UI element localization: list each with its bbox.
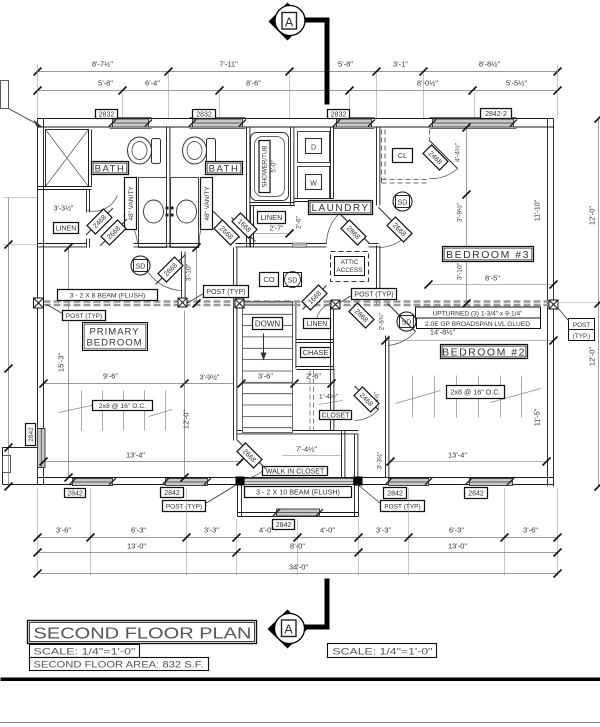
dim 7-4half walkin [283,455,341,457]
svg-text:6'-3": 6'-3" [131,526,146,535]
svg-text:CHASE: CHASE [303,348,329,357]
window 2842 left wall [38,429,46,468]
window 2842 bottom #4 (bedroom2) [470,479,513,486]
window between posts (walk-in closet) [244,479,354,485]
svg-text:SCALE: 1/4"=1'-0": SCALE: 1/4"=1'-0" [333,647,433,657]
svg-text:5'-8": 5'-8" [98,79,113,88]
svg-text:CO: CO [263,275,274,284]
window 2832 #1 top [110,118,152,129]
stair right wall [292,302,294,369]
dim 14-8half bedroom2 [386,340,554,342]
svg-text:1'-4½": 1'-4½" [319,393,339,401]
black post right (walk-in) [354,477,363,486]
svg-text:3'-9½": 3'-9½" [456,202,464,222]
svg-text:3'-6": 3'-6" [56,526,71,535]
svg-text:2842-2: 2842-2 [485,111,507,118]
svg-text:12'-0": 12'-0" [588,347,597,366]
sd detector box hall [284,272,302,288]
bath 2 label [206,162,243,175]
svg-text:6'-4": 6'-4" [145,79,160,88]
door 2468 bath1 [87,209,112,234]
post X stair wall [235,299,244,308]
sd circle bedroom3 [393,192,412,211]
exterior left wall [37,119,39,485]
closet dashed divider [309,371,311,431]
left outer dim line [8,198,10,487]
door arc bath1 [124,216,138,244]
closet label [320,411,352,420]
bath 1 label [92,162,129,175]
walkin top wall [238,430,359,432]
sill laundry [293,243,307,248]
svg-text:W: W [310,181,317,188]
door 2868 laundry [341,220,366,245]
door 2668 bath1 [101,220,126,245]
scale label left [30,645,140,658]
walk-in closet label [263,467,328,476]
svg-text:SECOND FLOOR AREA: 832 S.F.: SECOND FLOOR AREA: 832 S.F. [34,660,204,670]
svg-text:A: A [285,16,294,30]
attic access dashed box [331,252,369,282]
svg-text:ACCESS: ACCESS [337,267,363,274]
door arc bedroom3 closet [430,169,458,179]
svg-text:A: A [284,623,293,637]
chase column right wall [330,302,332,369]
door arc linen left [88,196,118,212]
post label left [63,311,106,321]
washer dryer nook wall [330,128,332,199]
door 2668 bedroom3 [387,217,412,242]
svg-text:8'-6": 8'-6" [246,79,261,88]
door arc bath2 [199,218,207,244]
svg-text:2x8 @ 16" O.C.: 2x8 @ 16" O.C. [99,403,147,410]
post label bottom right [381,501,425,512]
svg-text:POST (TYP): POST (TYP) [206,289,245,296]
svg-text:BEDROOM: BEDROOM [86,338,142,349]
svg-text:2842: 2842 [67,491,83,498]
door 2868 primary [158,257,183,282]
wall stub hall/primary [181,252,183,298]
dim 8-5 bedroom3 [429,284,554,286]
svg-text:5'-8": 5'-8" [338,60,353,69]
svg-text:2'-6": 2'-6" [296,215,303,229]
svg-text:CLOSET: CLOSET [321,413,350,420]
svg-text:8'-7½": 8'-7½" [92,60,114,69]
svg-text:13'-4": 13'-4" [448,451,467,460]
svg-text:2842: 2842 [387,491,403,498]
window 2842 bottom #3 (bedroom2) [389,479,429,486]
linen closet left right wall [86,190,88,213]
hall wall under baths [38,243,87,245]
svg-text:PRIMARY: PRIMARY [89,327,139,338]
svg-text:13'-0": 13'-0" [127,542,146,551]
section cut line bottom [305,579,328,628]
svg-text:2832: 2832 [331,112,347,119]
window 2832 #2 top [190,118,246,129]
svg-text:POST (TYP): POST (TYP) [384,503,420,510]
door 2668 walkin [237,443,262,468]
toilet bath1 [128,137,161,164]
dim 9-6 primary bedroom [44,383,234,385]
svg-text:BEDROOM #3: BEDROOM #3 [446,249,530,261]
vanity bath2 [171,178,199,248]
wall tub / laundry [290,128,292,206]
svg-text:LINEN: LINEN [260,213,282,222]
svg-text:9'-6": 9'-6" [103,372,118,381]
svg-text:11'-10": 11'-10" [535,199,542,221]
window label 2842 bottom4 [465,488,488,499]
svg-text:SHOWER/TUB: SHOWER/TUB [262,146,269,188]
toilet bath2 [183,137,216,164]
svg-text:2842: 2842 [276,522,292,529]
svg-text:48" VANITY: 48" VANITY [204,186,211,221]
dim 15-3 left [68,248,70,478]
svg-text:3'-3½": 3'-3½" [376,452,384,470]
post label right 2line [569,319,595,341]
bottom dimension row C [38,573,558,575]
dim 13-4 primary bedroom [44,461,241,463]
bottom dim extension lines [37,489,39,576]
window label 2832 #2 [193,110,216,119]
section marker A top [269,3,307,41]
svg-text:12'-0": 12'-0" [588,206,597,225]
svg-text:15'-3": 15'-3" [57,353,66,372]
linen/chase divider [297,339,334,341]
tub/shower [251,133,289,201]
svg-text:3'-9½": 3'-9½" [200,374,220,382]
svg-text:7'-11": 7'-11" [219,60,238,69]
scale label right [328,644,437,658]
bedroom 2 label [441,345,528,359]
svg-text:3'-6": 3'-6" [523,526,538,535]
window 2842 bottom #1 [73,479,113,486]
wall below chimney [38,186,92,188]
exterior right wall [547,119,549,487]
small label left bump-out [3,456,11,473]
chimney box [46,130,89,187]
stair left wall [233,248,235,441]
washer unit [298,167,330,199]
post X left wall [34,298,44,308]
svg-text:LAUNDRY: LAUNDRY [311,203,369,214]
bottom faint line [1,722,600,724]
bay walls bottom center [237,485,239,517]
joists primary bedroom [59,391,173,431]
svg-text:SD: SD [136,264,146,271]
primary bedroom label [83,323,148,351]
co detector [260,273,279,287]
closet wall right of stairs [330,369,332,431]
door 2668 bath2 [214,220,239,245]
section cut line top [305,20,328,105]
window bay center [277,509,320,516]
top dimension row 2 [38,90,558,92]
dim 13-4 bedroom2 [389,461,547,463]
svg-text:3'-1": 3'-1" [393,60,408,69]
window 2842 bottom #2 [166,479,208,486]
title second floor plan [28,621,257,644]
svg-text:LINEN: LINEN [56,226,77,233]
door arc bedroom2 closet [355,410,379,421]
dim 12-0 primary [184,311,186,478]
door arc bedroom2 [388,332,416,346]
walkin right wall [354,435,356,478]
sd circle hall left [131,256,150,275]
svg-text:4'-4½": 4'-4½" [454,142,462,162]
linen center label [258,212,286,224]
svg-text:ATTIC: ATTIC [341,259,359,266]
svg-text:3'-10": 3'-10" [457,262,464,280]
svg-text:7'-4½": 7'-4½" [296,445,318,454]
dryer unit [298,132,330,163]
door 1668 linen [232,213,257,238]
svg-text:SD: SD [398,200,408,207]
down arrow [263,334,265,355]
bottom border thick line [1,678,600,682]
svg-text:2x8 @ 16" O.C.: 2x8 @ 16" O.C. [450,388,500,397]
svg-text:POST (TYP): POST (TYP) [166,503,202,510]
svg-text:UPTURNED (3) 1-3/4" x 9-1/4": UPTURNED (3) 1-3/4" x 9-1/4" [432,311,523,318]
laundry / bedroom3 wall [376,128,378,206]
svg-text:3'-3": 3'-3" [376,526,391,535]
window label 2842 bottom3 [384,488,407,499]
svg-text:3'-6": 3'-6" [258,372,273,381]
left bump-out walls [3,447,38,449]
svg-text:4'-0": 4'-0" [320,526,335,535]
joist label primary [93,401,153,411]
wall bath2 / tub [246,128,248,248]
chase label [301,348,331,358]
svg-text:2842: 2842 [28,427,35,442]
svg-text:3'-3": 3'-3" [204,526,219,535]
door arc walk-in closet [238,469,266,480]
stairs [243,302,293,433]
svg-text:WALK IN CLOSET: WALK IN CLOSET [266,469,325,476]
wall bath1 left (below chimney) [88,130,90,187]
chase bottom wall [297,366,334,368]
window label 2842-2 [481,109,512,119]
svg-text:13'-4": 13'-4" [126,451,145,460]
door arc primary bedroom [149,273,182,291]
down label [253,318,283,330]
beam label bottom [245,487,352,498]
svg-text:DOWN: DOWN [255,319,281,328]
door 2468 b3 closet [423,145,448,170]
linen stair label [304,319,331,329]
exterior top wall [38,118,554,120]
door arc chase [317,303,337,323]
window label 2842 bottom2 [161,488,184,498]
svg-text:SECOND FLOOR PLAN: SECOND FLOOR PLAN [34,626,252,643]
bedroom 3 label [443,247,534,262]
svg-text:6'-3": 6'-3" [449,526,464,535]
svg-text:BEDROOM #2: BEDROOM #2 [442,346,526,358]
svg-text:3 - 2 X 8 BEAM (FLUSH): 3 - 2 X 8 BEAM (FLUSH) [70,292,146,299]
bedroom2 west wall [385,336,387,478]
top dim extension lines [122,93,124,119]
svg-text:2842: 2842 [164,490,180,497]
door arc bedroom3 [379,236,407,248]
small linen top wall [251,202,295,204]
sd circle bedroom2 [397,312,416,331]
svg-text:POST (TYP): POST (TYP) [66,313,102,320]
svg-text:3'-3½": 3'-3½" [54,205,74,213]
bedroom3 closet dashed walls [382,130,430,184]
bottom dimension row B [38,552,558,554]
svg-text:POST (TYP): POST (TYP) [354,292,393,299]
post label bedroom3 [352,289,397,300]
window label 2832 #1 [96,110,118,119]
svg-text:3'-10": 3'-10" [186,263,193,281]
dim 3-6 stairs [242,383,295,385]
svg-text:LINEN: LINEN [307,321,328,328]
bottom dimension row A [38,537,558,539]
svg-text:4'-0": 4'-0" [259,526,274,535]
svg-text:2832: 2832 [99,112,115,119]
flush beam dashed line [44,302,554,306]
laundry label [309,201,373,215]
svg-text:SD: SD [288,278,298,285]
joist label bedroom2 [447,386,505,399]
svg-text:BATH: BATH [209,163,240,174]
post X right wall [549,300,558,309]
svg-text:5'-5½": 5'-5½" [506,79,528,88]
small linen left wall [250,206,252,248]
dim 2-6 chase [295,383,332,385]
svg-text:8'-0": 8'-0" [290,542,305,551]
svg-text:2842: 2842 [468,491,484,498]
door 2868 bedroom2 [349,303,374,328]
vanity1 label [125,178,137,230]
window 2832 #3 top [334,118,375,129]
svg-text:POST: POST [573,322,590,329]
post label bottom left [163,501,206,512]
vanity2 label [201,178,213,230]
svg-text:5'-0": 5'-0" [271,160,278,172]
faucet marks [166,207,174,217]
leader label top-left [1,81,9,109]
black post left (walk-in) [236,477,245,486]
dim chain bedroom3 right: 4-4half / 3-9half / 3-10 [466,128,468,304]
window label 2842 bay [273,520,295,530]
svg-text:12'-0": 12'-0" [182,410,191,429]
window label 2842 left wall [26,424,36,446]
joists bedroom2 [396,376,541,418]
window end ticks [69,120,517,517]
shower tub label [259,141,270,193]
door arc laundry [326,213,340,245]
svg-text:D: D [311,145,316,152]
post X bedroom3 wall [331,300,340,309]
exterior bottom wall right part [359,477,554,479]
svg-text:8'-5": 8'-5" [485,274,500,283]
svg-text:2'-6": 2'-6" [306,372,321,381]
top dimension row 1 [38,71,558,73]
window label 2832 #3 [328,110,350,119]
svg-text:(TYP.): (TYP.) [573,333,590,340]
vanity bath1 [139,178,167,248]
svg-text:48" VANITY: 48" VANITY [128,186,135,221]
dim 2-7 linen [253,233,290,235]
post label center [204,286,249,298]
exterior bottom wall center (behind bay) [244,477,354,479]
svg-text:2'-7": 2'-7" [270,226,284,233]
svg-text:11'-5": 11'-5" [535,408,542,426]
svg-text:8'-8½": 8'-8½" [479,60,501,69]
door 2468 b2 closet [354,387,379,412]
section marker A bottom [268,610,308,649]
linen left label [54,223,79,234]
door 1668 chase [302,285,327,310]
svg-text:BATH: BATH [95,163,126,174]
svg-text:8'-0½": 8'-0½" [417,79,439,88]
right outer dim line [598,119,600,487]
svg-text:2832: 2832 [196,112,212,119]
svg-text:2'-6¾": 2'-6¾" [379,313,386,331]
post X mid [178,298,187,307]
svg-text:2.0E GP BROADSPAN LVL GLUED: 2.0E GP BROADSPAN LVL GLUED [425,321,530,328]
svg-text:3 - 2 X 10 BEAM (FLUSH): 3 - 2 X 10 BEAM (FLUSH) [256,488,340,497]
area label [30,658,209,671]
cl label [393,149,413,163]
wall between baths [166,128,168,248]
dim 3-10 hall [196,248,198,304]
svg-text:13'-0": 13'-0" [448,542,467,551]
svg-text:CL: CL [398,153,407,160]
window label 2842 bottom1 [65,489,86,498]
svg-text:SCALE: 1/4"=1'-0": SCALE: 1/4"=1'-0" [34,647,136,657]
window 2842-2 top [430,118,517,129]
exterior bottom wall left part [38,477,238,479]
upturned beam label [416,307,541,329]
svg-text:34'-0": 34'-0" [289,563,308,572]
beam label left [58,290,158,301]
